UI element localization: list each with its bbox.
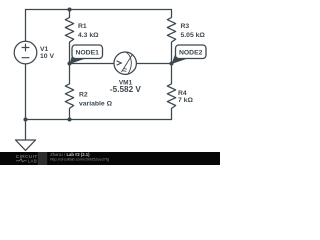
junction dot (bottom rail / ground) [23, 117, 27, 121]
wire mid-right (VM1 to NODE2) [136, 63, 171, 65]
svg-text:variable Ω: variable Ω [79, 100, 113, 107]
resistor R2 [65, 64, 73, 120]
junction node NODE1 dot [67, 61, 71, 65]
ground [16, 120, 36, 151]
junction node NODE2 dot [169, 61, 173, 65]
wire left rail lower [25, 64, 27, 120]
resistor R1 [65, 10, 73, 64]
voltmeter VM1 [114, 52, 136, 74]
svg-text:-5.582 V: -5.582 V [110, 85, 141, 94]
svg-text:R1: R1 [78, 23, 87, 30]
CircuitLab logo [16, 152, 47, 165]
svg-text:R2: R2 [79, 92, 88, 99]
svg-text:R3: R3 [181, 23, 190, 30]
svg-text:10 V: 10 V [40, 53, 54, 60]
svg-text:4.3 kΩ: 4.3 kΩ [78, 32, 99, 39]
svg-text:5.05 kΩ: 5.05 kΩ [181, 32, 206, 39]
svg-text:ZhanLi / Lab #2 (2.1): ZhanLi / Lab #2 (2.1) [50, 152, 90, 157]
svg-text:LAB: LAB [28, 158, 37, 163]
resistor R4 [167, 64, 175, 120]
attribution bar [0, 152, 220, 165]
node flag NODE1 [70, 45, 103, 64]
svg-text:R4: R4 [178, 90, 187, 97]
svg-text:7 kΩ: 7 kΩ [178, 97, 193, 104]
wire top rail [26, 9, 172, 11]
svg-text:NODE2: NODE2 [179, 50, 203, 57]
wire bottom rail [26, 119, 172, 121]
junction dot (bottom rail / R2) [67, 117, 71, 121]
voltage source V1 [14, 41, 37, 64]
node flag NODE2 [172, 45, 207, 64]
junction dot (top rail / R1) [67, 7, 71, 11]
resistor R3 [167, 10, 175, 64]
svg-text:http://circuitlab.com/c/99d52e: http://circuitlab.com/c/99d52ee37fg [50, 158, 109, 162]
wire left rail upper [25, 10, 27, 42]
svg-text:NODE1: NODE1 [75, 50, 99, 57]
wire mid-left (NODE1 to VM1) [70, 63, 115, 65]
